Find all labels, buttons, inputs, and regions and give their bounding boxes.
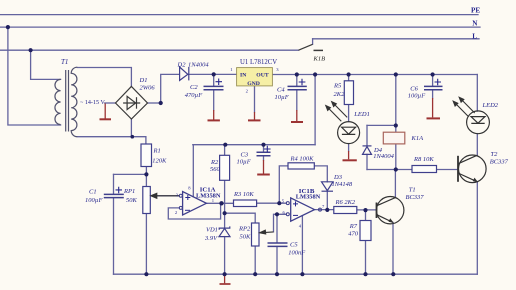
svg-text:U1 L7812CV: U1 L7812CV — [240, 59, 277, 66]
svg-text:RP1: RP1 — [123, 188, 135, 195]
svg-text:10µF: 10µF — [237, 159, 252, 166]
svg-text:560: 560 — [210, 166, 221, 173]
svg-text:T1: T1 — [409, 187, 416, 194]
svg-text:T2: T2 — [491, 151, 499, 158]
svg-text:K1B: K1B — [313, 56, 326, 63]
svg-text:R1: R1 — [153, 148, 161, 155]
svg-text:2W06: 2W06 — [140, 85, 156, 92]
svg-text:~ 14-15 V: ~ 14-15 V — [80, 100, 105, 106]
svg-text:BC337: BC337 — [406, 194, 425, 201]
svg-text:100µF: 100µF — [85, 197, 103, 204]
svg-text:C6: C6 — [410, 85, 418, 92]
svg-text:C3: C3 — [241, 151, 249, 158]
svg-text:R4 100K: R4 100K — [290, 155, 315, 162]
svg-text:50K: 50K — [240, 234, 252, 241]
svg-text:100µF: 100µF — [408, 92, 426, 99]
svg-text:10µF: 10µF — [275, 94, 290, 101]
svg-text:T1: T1 — [61, 58, 68, 66]
svg-text:50K: 50K — [126, 197, 138, 204]
svg-text:K1A: K1A — [411, 135, 424, 142]
svg-text:D1: D1 — [139, 77, 148, 84]
svg-text:BC337: BC337 — [490, 159, 509, 166]
svg-text:1N4004: 1N4004 — [188, 61, 209, 68]
svg-text:GND: GND — [247, 81, 260, 87]
svg-text:2K2: 2K2 — [334, 91, 346, 98]
svg-text:IN: IN — [240, 72, 247, 78]
svg-text:N: N — [472, 20, 478, 28]
svg-text:R2: R2 — [210, 159, 219, 166]
svg-text:470µF: 470µF — [185, 92, 203, 99]
svg-text:3.9V: 3.9V — [204, 235, 218, 242]
svg-text:C2: C2 — [190, 84, 198, 91]
svg-text:LED1: LED1 — [353, 111, 370, 118]
svg-text:LM358N: LM358N — [196, 192, 221, 199]
svg-text:RP2: RP2 — [238, 226, 251, 233]
svg-text:PE: PE — [471, 7, 480, 15]
svg-text:R7: R7 — [349, 223, 358, 230]
svg-text:LED2: LED2 — [482, 102, 499, 109]
svg-text:VD1: VD1 — [206, 227, 218, 234]
svg-text:OUT: OUT — [256, 72, 269, 78]
svg-text:D3: D3 — [333, 174, 343, 181]
svg-text:R3 10K: R3 10K — [233, 191, 254, 198]
svg-text:1N4148: 1N4148 — [332, 181, 353, 188]
svg-text:C1: C1 — [89, 189, 97, 196]
svg-text:1N4004: 1N4004 — [373, 153, 394, 160]
svg-text:100nF: 100nF — [288, 249, 306, 256]
svg-text:R6 2K2: R6 2K2 — [335, 199, 356, 206]
svg-text:470: 470 — [348, 231, 359, 238]
svg-text:D2: D2 — [177, 61, 187, 68]
svg-text:120K: 120K — [152, 158, 167, 165]
svg-text:R5: R5 — [333, 83, 342, 90]
svg-text:L: L — [472, 33, 477, 41]
svg-text:C4: C4 — [277, 86, 285, 93]
svg-text:R8 10K: R8 10K — [413, 156, 434, 163]
svg-text:C5: C5 — [290, 242, 298, 249]
svg-text:LM358N: LM358N — [296, 194, 321, 201]
